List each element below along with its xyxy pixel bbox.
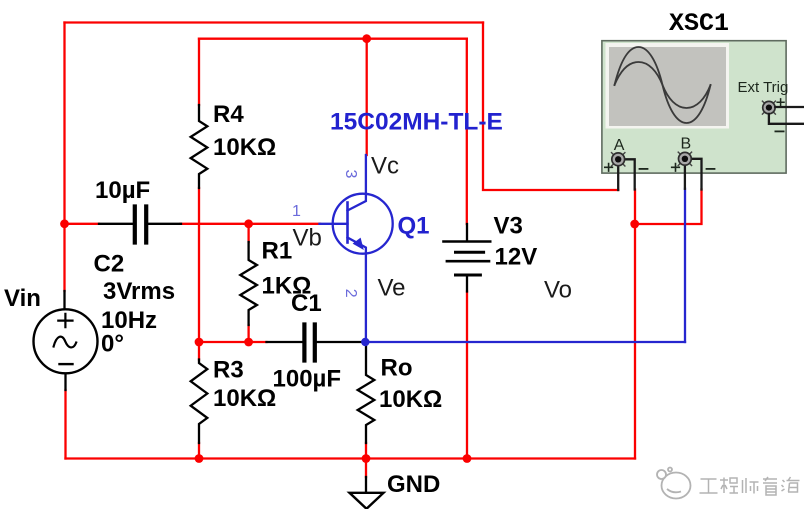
wire right vertical ground riser <box>634 190 636 459</box>
wire bottom ground rail <box>66 457 636 459</box>
transistor Q1 emitter <box>348 238 366 343</box>
wire base rail right segment <box>181 223 321 225</box>
junction dot Ro-GND <box>362 454 371 463</box>
wire inner VCC rail <box>199 38 467 40</box>
junction dot Vin-C2 node <box>60 219 69 228</box>
scope terminal B ticks <box>678 152 691 165</box>
capacitor C1 plates <box>304 325 314 361</box>
wire battery top from VCC rail <box>466 39 468 224</box>
svg-text:XSC1: XSC1 <box>669 9 729 38</box>
capacitor C2 leads <box>99 223 181 225</box>
source Vin leads <box>65 291 66 390</box>
transistor Q1 circle <box>333 194 393 254</box>
transistor Q1 collector <box>348 155 366 211</box>
junction dot R3 ground <box>195 454 204 463</box>
scope terminal B <box>679 152 692 165</box>
svg-text:C1: C1 <box>291 290 322 317</box>
ground symbol triangle <box>350 493 384 509</box>
wire R1 top stub <box>247 224 249 242</box>
source Vin circle <box>34 309 98 373</box>
resistor R3 <box>191 360 208 444</box>
scope A minus stub <box>625 159 635 189</box>
wire R3 bottom stub <box>198 443 200 459</box>
wire R4 bottom to R3 top vertical <box>198 188 200 342</box>
wire Vin top stub <box>63 224 65 291</box>
svg-text:1: 1 <box>292 203 301 220</box>
wire B-minus link <box>635 190 702 225</box>
svg-text:2: 2 <box>342 289 359 298</box>
wire blue emitter net vertical to scope B <box>684 189 686 342</box>
svg-text:A: A <box>614 137 625 154</box>
svg-text:100µF: 100µF <box>273 366 342 393</box>
svg-text:Ext Trig: Ext Trig <box>738 79 789 96</box>
junction dot battery ground <box>463 454 472 463</box>
junction dot R1 bottom <box>244 338 253 347</box>
transistor Q1 base lead blue <box>320 223 348 225</box>
oscilloscope screen <box>609 47 726 126</box>
svg-text:0°: 0° <box>101 331 124 358</box>
svg-text:10µF: 10µF <box>95 177 150 204</box>
junction dot base Vb node <box>244 219 253 228</box>
wire Ro bottom stub <box>365 443 367 459</box>
svg-text:Q1: Q1 <box>398 213 430 240</box>
scope B minus stub <box>692 159 702 190</box>
svg-text:15C02MH-TL-E: 15C02MH-TL-E <box>330 109 503 136</box>
wire A-channel drop from top rail to scope A <box>483 23 618 191</box>
svg-text:R3: R3 <box>213 357 244 384</box>
wire mid rail to C1 <box>199 341 267 343</box>
transistor Q1 emitter arrow <box>353 238 364 250</box>
svg-text:C2: C2 <box>94 251 125 278</box>
wire base rail left segment <box>65 223 100 225</box>
scope ext trig terminal <box>763 101 775 113</box>
svg-text:10KΩ: 10KΩ <box>379 386 442 413</box>
scope terminal A <box>612 153 625 166</box>
svg-text:10KΩ: 10KΩ <box>213 385 276 412</box>
resistor R4 <box>191 105 208 188</box>
capacitor C1 leads <box>267 341 362 343</box>
source Vin sine symbol <box>54 337 77 348</box>
wire battery bottom to ground rail <box>466 292 468 459</box>
svg-text:10KΩ: 10KΩ <box>213 134 276 161</box>
scope terminal A ticks <box>612 153 625 166</box>
scope B plus mark <box>672 164 680 172</box>
svg-text:R1: R1 <box>262 238 293 265</box>
junction dot A-minus riser <box>630 220 639 229</box>
oscilloscope screen frame <box>606 43 730 129</box>
scope ext trig wire right <box>775 106 804 108</box>
wire GND red stub <box>365 459 367 478</box>
junction dot collector VCC rail <box>362 34 371 43</box>
watermark logo <box>657 468 691 499</box>
wire Vin bottom stub <box>64 390 66 459</box>
scope ext trig terminal ticks <box>762 101 775 114</box>
svg-text:B: B <box>681 136 692 153</box>
scope ext trig wire down <box>769 114 804 124</box>
svg-text:3: 3 <box>342 170 359 179</box>
svg-text:Ro: Ro <box>381 355 413 382</box>
source Vin minus sign <box>60 363 73 365</box>
scope B plus stub black <box>684 160 686 189</box>
wire collector red drop <box>366 39 368 155</box>
svg-text:Vc: Vc <box>371 153 399 180</box>
svg-text:3Vrms: 3Vrms <box>103 278 175 305</box>
svg-text:12V: 12V <box>495 244 538 271</box>
wire blue emitter net horizontal <box>365 341 685 343</box>
svg-text:Vo: Vo <box>544 277 572 304</box>
wire top outer rail Vin net <box>65 21 484 23</box>
battery V3 leads <box>466 224 468 292</box>
resistor Ro <box>358 344 375 443</box>
wire R4 top lead red <box>198 39 200 105</box>
wire R1 bottom stub <box>247 325 249 342</box>
capacitor C2 plates <box>135 207 146 243</box>
scope A plus mark <box>605 164 613 172</box>
svg-text:Vb: Vb <box>293 225 322 252</box>
resistor R1 <box>240 242 257 325</box>
junction dot emitter node blue <box>361 338 369 346</box>
junction dot divider mid at R3 <box>195 338 204 347</box>
wire left rail <box>63 23 65 225</box>
source Vin plus sign <box>58 314 72 327</box>
scope B minus mark <box>707 168 715 170</box>
svg-text:Ve: Ve <box>378 275 406 302</box>
wire R3 top stub <box>198 342 200 360</box>
oscilloscope waveform big <box>615 47 711 123</box>
oscilloscope waveform small <box>615 62 711 108</box>
scope A plus stub <box>617 160 619 190</box>
scope ext plus mark <box>777 99 784 106</box>
transistor Q1 base bar <box>346 203 349 243</box>
scope A minus mark <box>640 168 648 170</box>
svg-text:GND: GND <box>387 471 440 498</box>
svg-text:Vin: Vin <box>4 285 41 312</box>
ground symbol stub <box>365 477 367 493</box>
scope ext minus mark <box>775 130 783 132</box>
watermark text gongchengshi kanhai <box>700 477 800 495</box>
svg-text:R4: R4 <box>213 101 244 128</box>
svg-text:V3: V3 <box>494 213 523 240</box>
battery V3 plates <box>444 240 491 243</box>
oscilloscope XSC1 body <box>602 41 786 173</box>
